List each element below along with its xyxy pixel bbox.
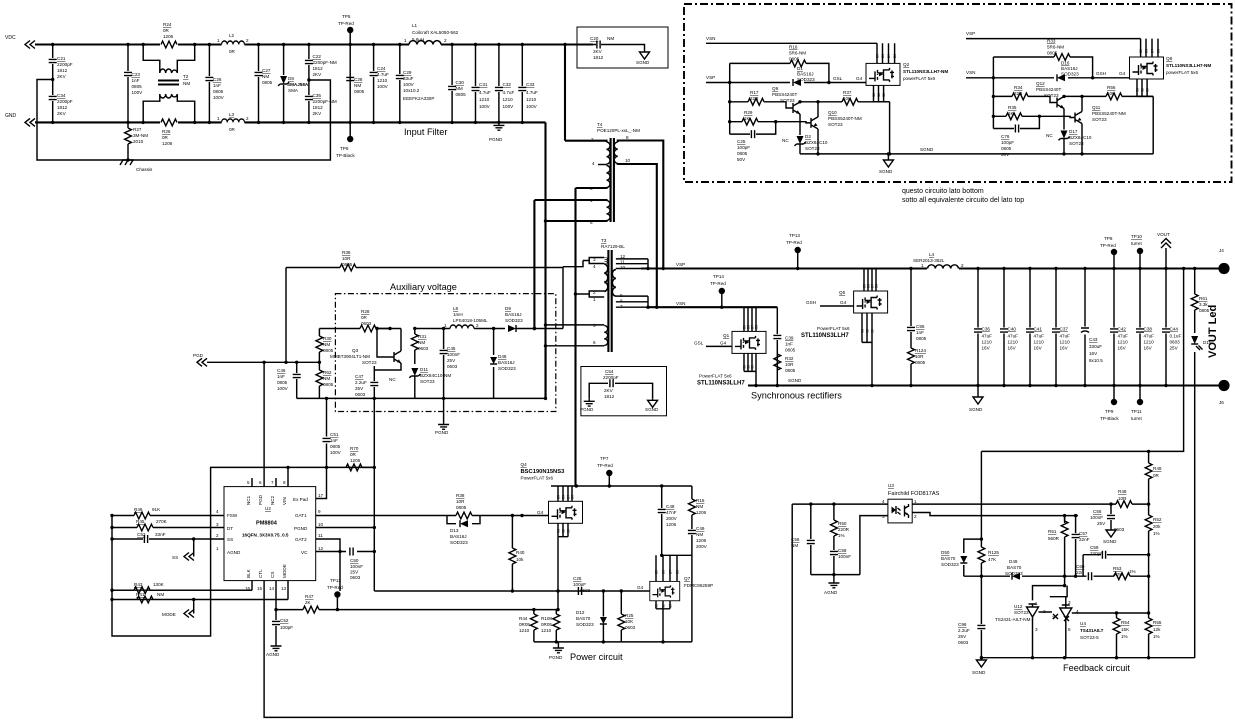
svg-text:2: 2 bbox=[246, 38, 249, 43]
svg-text:TP-Black: TP-Black bbox=[1100, 416, 1119, 421]
svg-text:25V: 25V bbox=[350, 570, 359, 575]
svg-text:NM: NM bbox=[157, 592, 164, 597]
svg-text:C46: C46 bbox=[277, 368, 286, 373]
mosfet Q2 bbox=[866, 63, 900, 85]
svg-text:SOT23: SOT23 bbox=[805, 146, 820, 151]
svg-text:NM: NM bbox=[456, 86, 463, 91]
svg-text:10R: 10R bbox=[342, 256, 351, 261]
svg-text:33nF: 33nF bbox=[155, 532, 166, 537]
svg-text:0805: 0805 bbox=[737, 151, 748, 156]
mosfet Q4 bbox=[558, 486, 572, 501]
transistor Q11 pnp bbox=[1075, 112, 1082, 124]
svg-text:1nF: 1nF bbox=[277, 374, 285, 379]
transistor Q10 pnp bbox=[811, 117, 818, 129]
svg-text:D6: D6 bbox=[562, 495, 566, 499]
wire pin13 MODE bbox=[112, 581, 288, 600]
svg-text:0R: 0R bbox=[229, 49, 236, 54]
svg-text:R54: R54 bbox=[1121, 620, 1130, 625]
svg-text:47uF: 47uF bbox=[1144, 334, 1155, 339]
svg-text:0805: 0805 bbox=[916, 336, 927, 341]
svg-text:L2: L2 bbox=[229, 33, 235, 38]
svg-text:TP7: TP7 bbox=[600, 456, 609, 461]
capacitor C40 bbox=[1003, 269, 1005, 386]
svg-text:Q3: Q3 bbox=[352, 348, 359, 353]
svg-text:D5: D5 bbox=[557, 495, 561, 499]
svg-text:VC: VC bbox=[301, 550, 308, 555]
svg-text:BAS70: BAS70 bbox=[576, 616, 591, 621]
svg-text:S1: S1 bbox=[861, 329, 865, 333]
svg-text:100pF: 100pF bbox=[280, 625, 293, 630]
svg-text:0603: 0603 bbox=[361, 321, 372, 326]
svg-text:7: 7 bbox=[271, 480, 274, 485]
resistor R40 bbox=[511, 516, 513, 592]
svg-text:200V: 200V bbox=[696, 544, 708, 549]
svg-text:VDC: VDC bbox=[5, 35, 16, 41]
svg-text:SER2013-362L: SER2013-362L bbox=[913, 258, 945, 263]
svg-text:T4: T4 bbox=[597, 122, 603, 127]
svg-text:1nF: 1nF bbox=[132, 78, 140, 83]
wire VC bbox=[316, 551, 375, 553]
wire GND to T3 area bbox=[544, 122, 546, 398]
svg-text:8x10.5: 8x10.5 bbox=[1089, 358, 1103, 363]
svg-text:560R: 560R bbox=[1048, 536, 1060, 541]
svg-text:10: 10 bbox=[625, 158, 631, 163]
svg-text:0805: 0805 bbox=[789, 57, 800, 62]
svg-text:PowerFLAT 5x6: PowerFLAT 5x6 bbox=[521, 476, 554, 481]
svg-text:1210: 1210 bbox=[1144, 340, 1155, 345]
capacitor C52 bbox=[275, 610, 277, 643]
svg-text:NC2: NC2 bbox=[270, 495, 275, 505]
diode D17 zener bbox=[1059, 131, 1070, 141]
wire GAT2 bbox=[316, 539, 340, 591]
capacitor C27 bbox=[258, 45, 260, 123]
svg-text:C26: C26 bbox=[213, 77, 222, 82]
svg-text:47K: 47K bbox=[988, 557, 997, 562]
diode D16 bbox=[1057, 74, 1065, 81]
svg-text:1nF: 1nF bbox=[916, 330, 924, 335]
svg-text:SOT23: SOT23 bbox=[780, 98, 795, 103]
svg-text:C40: C40 bbox=[1008, 327, 1017, 332]
svg-text:C54: C54 bbox=[605, 369, 614, 374]
svg-text:0R05: 0R05 bbox=[541, 622, 552, 627]
capacitor C20 bbox=[593, 45, 645, 51]
svg-text:BZX84C10: BZX84C10 bbox=[1069, 135, 1092, 140]
mosfet Q1 bbox=[744, 307, 756, 331]
svg-text:12: 12 bbox=[318, 546, 324, 551]
svg-text:25V: 25V bbox=[355, 386, 364, 391]
svg-text:NM: NM bbox=[323, 376, 330, 381]
svg-text:10: 10 bbox=[620, 265, 626, 270]
svg-text:10k: 10k bbox=[516, 557, 524, 562]
svg-text:SGND: SGND bbox=[788, 378, 802, 383]
svg-text:1%: 1% bbox=[1153, 634, 1160, 639]
wire aux vertical down bbox=[374, 590, 650, 592]
svg-text:SGND: SGND bbox=[879, 169, 893, 174]
svg-text:4.7uF: 4.7uF bbox=[479, 90, 491, 95]
svg-text:C50: C50 bbox=[350, 558, 359, 563]
svg-text:SGND: SGND bbox=[972, 670, 986, 675]
capacitor C60 / resistor R53 bbox=[1088, 572, 1091, 580]
svg-text:R49: R49 bbox=[1153, 466, 1162, 471]
svg-text:R108: R108 bbox=[541, 616, 552, 621]
diode D15 LED bbox=[1191, 336, 1198, 344]
svg-text:VSN: VSN bbox=[676, 301, 685, 306]
svg-text:8: 8 bbox=[283, 480, 286, 485]
svg-text:R40: R40 bbox=[516, 550, 525, 555]
svg-text:1: 1 bbox=[216, 546, 219, 551]
svg-text:1812: 1812 bbox=[57, 68, 68, 73]
svg-text:9: 9 bbox=[318, 509, 321, 514]
svg-text:1812: 1812 bbox=[593, 55, 604, 60]
svg-text:1: 1 bbox=[217, 38, 220, 43]
svg-text:16V: 16V bbox=[1034, 346, 1043, 351]
svg-text:C45: C45 bbox=[447, 346, 456, 351]
resistor R47 bbox=[276, 609, 534, 611]
wire U3 input bbox=[792, 503, 888, 505]
svg-text:D5: D5 bbox=[876, 54, 880, 58]
svg-text:NC: NC bbox=[389, 377, 396, 382]
svg-text:D11: D11 bbox=[420, 367, 429, 372]
svg-text:C28: C28 bbox=[354, 77, 363, 82]
svg-text:VSP: VSP bbox=[676, 262, 685, 267]
wire chassis loop left bbox=[37, 80, 330, 161]
svg-text:D8: D8 bbox=[1157, 49, 1161, 53]
wire pin16 BLK bbox=[112, 581, 252, 591]
svg-text:SMAJ58A: SMAJ58A bbox=[287, 82, 309, 87]
svg-text:D12: D12 bbox=[576, 610, 585, 615]
svg-text:1210: 1210 bbox=[479, 97, 490, 102]
svg-text:1mH: 1mH bbox=[453, 312, 463, 317]
svg-text:100V: 100V bbox=[503, 104, 515, 109]
svg-text:0.1uF: 0.1uF bbox=[1170, 334, 1182, 339]
svg-text:S1: S1 bbox=[872, 93, 876, 97]
svg-text:TP10: TP10 bbox=[1131, 234, 1142, 239]
svg-text:100pF: 100pF bbox=[737, 145, 750, 150]
svg-text:BAS70: BAS70 bbox=[1007, 565, 1022, 570]
svg-text:1210: 1210 bbox=[1118, 340, 1129, 345]
svg-text:47uF: 47uF bbox=[1008, 334, 1019, 339]
svg-text:Feedback circuit: Feedback circuit bbox=[1063, 663, 1130, 673]
svg-text:0603: 0603 bbox=[958, 640, 969, 645]
svg-text:BAS16J: BAS16J bbox=[1061, 66, 1078, 71]
resistor R30 bbox=[318, 329, 320, 399]
ground AGND bbox=[271, 643, 282, 651]
svg-text:16V: 16V bbox=[1008, 346, 1017, 351]
svg-text:GSL: GSL bbox=[694, 341, 704, 346]
svg-text:SOT23: SOT23 bbox=[1092, 117, 1107, 122]
resistor R50 bbox=[833, 504, 835, 574]
svg-text:C56: C56 bbox=[791, 537, 800, 542]
svg-text:NM: NM bbox=[696, 532, 703, 537]
svg-text:1210: 1210 bbox=[503, 97, 514, 102]
svg-text:SOT23: SOT23 bbox=[1044, 93, 1059, 98]
svg-text:PGND: PGND bbox=[489, 137, 503, 142]
svg-text:NM: NM bbox=[418, 340, 425, 345]
svg-text:NM: NM bbox=[607, 36, 614, 41]
svg-text:100V: 100V bbox=[479, 104, 491, 109]
svg-text:C55: C55 bbox=[1093, 509, 1102, 514]
capacitor C39 bbox=[776, 307, 778, 385]
svg-text:TP-Red: TP-Red bbox=[786, 240, 802, 245]
svg-text:BAS16J: BAS16J bbox=[498, 360, 515, 365]
diode D11 zener bbox=[409, 368, 420, 378]
svg-text:D6: D6 bbox=[662, 570, 666, 574]
svg-text:STL110NS3LLH7-NM: STL110NS3LLH7-NM bbox=[1166, 63, 1211, 68]
svg-text:S1: S1 bbox=[1136, 88, 1140, 92]
svg-text:CTL: CTL bbox=[258, 569, 263, 578]
svg-text:BAS16J: BAS16J bbox=[505, 312, 522, 317]
svg-text:PBSS5240T-NM: PBSS5240T-NM bbox=[828, 116, 862, 121]
svg-text:Synchronous rectifiers: Synchronous rectifiers bbox=[751, 391, 842, 401]
wire SGND bbox=[800, 153, 1153, 155]
svg-text:1nF: 1nF bbox=[330, 438, 338, 443]
svg-text:TP-Red: TP-Red bbox=[327, 585, 343, 590]
svg-text:G4: G4 bbox=[637, 585, 644, 590]
svg-text:SOD323: SOD323 bbox=[1061, 72, 1079, 77]
svg-text:4: 4 bbox=[593, 264, 596, 269]
svg-text:2KV: 2KV bbox=[57, 111, 67, 116]
svg-text:BAS16J: BAS16J bbox=[450, 534, 467, 539]
svg-text:25V: 25V bbox=[958, 634, 967, 639]
mosfet Q8 bbox=[1130, 57, 1164, 79]
ground PGND bbox=[557, 642, 559, 645]
svg-text:SOT23: SOT23 bbox=[362, 360, 377, 365]
svg-text:4.7uF: 4.7uF bbox=[503, 90, 515, 95]
svg-text:BZX84C10: BZX84C10 bbox=[805, 140, 828, 145]
svg-text:1%: 1% bbox=[1153, 531, 1160, 536]
svg-text:NM: NM bbox=[696, 504, 703, 509]
svg-text:0805: 0805 bbox=[132, 84, 143, 89]
svg-text:FDMC86259P: FDMC86259P bbox=[684, 583, 713, 588]
svg-text:100nF: 100nF bbox=[447, 352, 460, 357]
ground PGND bbox=[493, 122, 504, 130]
svg-text:R61: R61 bbox=[1199, 296, 1208, 301]
svg-text:15: 15 bbox=[257, 586, 263, 591]
svg-text:C59: C59 bbox=[1090, 545, 1099, 550]
svg-text:100pF: 100pF bbox=[1001, 140, 1014, 145]
svg-text:D8: D8 bbox=[875, 284, 879, 288]
svg-text:C96: C96 bbox=[958, 622, 967, 627]
resistor R125 bbox=[978, 547, 985, 563]
svg-text:C31: C31 bbox=[479, 82, 488, 87]
ground SGND bbox=[640, 50, 650, 59]
svg-text:SGND: SGND bbox=[1103, 539, 1117, 544]
svg-text:R41: R41 bbox=[136, 592, 145, 597]
wire top rail to T4 pin2 bbox=[564, 45, 566, 141]
svg-text:PBSS4240T: PBSS4240T bbox=[1036, 87, 1061, 92]
svg-text:25V: 25V bbox=[447, 358, 456, 363]
svg-text:R48: R48 bbox=[1118, 489, 1127, 494]
diode D1 bbox=[793, 79, 801, 86]
svg-text:C29: C29 bbox=[403, 70, 412, 75]
svg-text:T2: T2 bbox=[183, 74, 189, 79]
svg-text:S2: S2 bbox=[877, 93, 881, 97]
right subcircuit bbox=[966, 31, 1211, 157]
svg-text:R125: R125 bbox=[988, 550, 999, 555]
svg-text:PGND: PGND bbox=[294, 526, 308, 531]
svg-text:2KV: 2KV bbox=[313, 111, 323, 116]
svg-text:GND: GND bbox=[5, 113, 17, 119]
svg-text:SOD323: SOD323 bbox=[797, 77, 815, 82]
svg-text:VIN: VIN bbox=[282, 497, 287, 505]
wire GAT1 bbox=[316, 515, 447, 517]
capacitor C57 bbox=[1075, 516, 1077, 577]
ground SGND bbox=[648, 398, 658, 407]
svg-text:SOT23-5: SOT23-5 bbox=[1080, 635, 1099, 640]
opto U3 bbox=[888, 499, 912, 523]
svg-text:2KV: 2KV bbox=[604, 388, 614, 393]
svg-text:C42: C42 bbox=[1118, 327, 1127, 332]
svg-text:C22: C22 bbox=[313, 54, 322, 59]
svg-text:1: 1 bbox=[444, 323, 447, 328]
svg-text:200V: 200V bbox=[666, 516, 678, 521]
box C54 bbox=[581, 367, 667, 416]
svg-text:5R6-NM: 5R6-NM bbox=[1047, 45, 1064, 50]
svg-text:1210: 1210 bbox=[519, 628, 530, 633]
svg-text:1: 1 bbox=[921, 263, 924, 268]
resistor R124 bbox=[908, 348, 915, 364]
svg-text:U4: U4 bbox=[1080, 621, 1086, 626]
bottom wire bbox=[534, 641, 692, 643]
svg-text:U3: U3 bbox=[888, 483, 894, 488]
svg-text:4.7K: 4.7K bbox=[1113, 572, 1123, 577]
Q2 source pins bbox=[874, 85, 890, 153]
svg-text:C36: C36 bbox=[982, 327, 991, 332]
svg-text:C43: C43 bbox=[1089, 337, 1098, 342]
svg-text:1nF: 1nF bbox=[785, 342, 793, 347]
svg-text:VOUT Led: VOUT Led bbox=[1207, 305, 1219, 358]
svg-text:powerFLAT 5x6: powerFLAT 5x6 bbox=[1166, 70, 1198, 75]
wire R54 R55 bbox=[1117, 612, 1149, 614]
svg-text:R36: R36 bbox=[342, 250, 351, 255]
svg-text:0805: 0805 bbox=[1047, 51, 1058, 56]
svg-text:VSN: VSN bbox=[706, 36, 715, 41]
svg-text:Ex Pad: Ex Pad bbox=[293, 497, 308, 502]
capacitor C96 bbox=[977, 625, 985, 628]
capacitor C76 bbox=[993, 116, 1039, 128]
resistor R34 bbox=[993, 96, 1057, 102]
svg-text:1: 1 bbox=[404, 38, 407, 43]
resistor R55 bbox=[1148, 576, 1150, 658]
svg-text:C23: C23 bbox=[132, 72, 141, 77]
svg-text:100nF: 100nF bbox=[838, 554, 851, 559]
transistor Q12 bbox=[1057, 97, 1064, 109]
svg-text:TP6: TP6 bbox=[340, 146, 349, 151]
svg-text:16QFN_3X3X0.75_0.5: 16QFN_3X3X0.75_0.5 bbox=[242, 533, 289, 538]
svg-text:R27: R27 bbox=[133, 127, 142, 132]
svg-text:C57: C57 bbox=[1079, 531, 1088, 536]
capacitor C36 bbox=[977, 269, 979, 386]
svg-text:SOD323: SOD323 bbox=[576, 622, 594, 627]
svg-text:3: 3 bbox=[1068, 600, 1071, 605]
svg-text:0805: 0805 bbox=[213, 89, 224, 94]
svg-text:1812: 1812 bbox=[604, 394, 615, 399]
svg-text:2KV: 2KV bbox=[57, 74, 67, 79]
ground chassis bbox=[120, 160, 134, 165]
svg-text:22R: 22R bbox=[750, 96, 759, 101]
svg-text:G4: G4 bbox=[856, 76, 863, 81]
wire pin1 to R48 bbox=[912, 503, 1148, 505]
svg-text:SOT23: SOT23 bbox=[828, 122, 843, 127]
svg-text:13: 13 bbox=[281, 586, 287, 591]
svg-text:2200pF-NM: 2200pF-NM bbox=[313, 99, 337, 104]
ground SGND below C36 bbox=[977, 386, 979, 396]
svg-text:0R: 0R bbox=[350, 452, 357, 457]
resistor R62 bbox=[316, 370, 323, 386]
capacitor C31 bbox=[475, 45, 477, 123]
svg-text:Q11: Q11 bbox=[1092, 105, 1101, 110]
svg-text:D8: D8 bbox=[893, 54, 897, 58]
resistor R36 wire bbox=[286, 266, 563, 269]
svg-text:1812: 1812 bbox=[313, 66, 324, 71]
svg-text:Coilcraft XAL5050-562: Coilcraft XAL5050-562 bbox=[412, 30, 459, 35]
resistor R17 bbox=[730, 102, 793, 108]
svg-text:R45: R45 bbox=[136, 519, 145, 524]
svg-text:2: 2 bbox=[476, 323, 479, 328]
capacitor C35 bbox=[305, 96, 313, 99]
svg-text:SOD323: SOD323 bbox=[505, 318, 523, 323]
svg-text:SGND: SGND bbox=[920, 147, 934, 152]
svg-text:0603: 0603 bbox=[625, 625, 636, 630]
resistor R48 bbox=[1116, 501, 1132, 508]
svg-text:D2: D2 bbox=[805, 134, 811, 139]
svg-text:L1: L1 bbox=[412, 23, 418, 28]
svg-text:D49: D49 bbox=[1009, 559, 1018, 564]
svg-text:D17: D17 bbox=[1069, 129, 1078, 134]
svg-text:0805: 0805 bbox=[323, 382, 334, 387]
left bus bbox=[112, 467, 374, 636]
svg-text:1%: 1% bbox=[838, 533, 845, 538]
svg-text:D1: D1 bbox=[797, 66, 803, 71]
resistor R44 bbox=[533, 610, 535, 642]
svg-text:C51: C51 bbox=[330, 432, 339, 437]
svg-text:R25: R25 bbox=[625, 613, 634, 618]
svg-text:TP11: TP11 bbox=[1131, 409, 1142, 414]
svg-text:NM: NM bbox=[262, 74, 269, 79]
capacitor C26 bbox=[208, 45, 210, 123]
ground SGND bbox=[1106, 528, 1116, 537]
svg-text:1K: 1K bbox=[1008, 111, 1015, 116]
capacitor C29 bbox=[399, 45, 401, 123]
svg-text:PBSS5240T-NM: PBSS5240T-NM bbox=[1092, 111, 1126, 116]
svg-text:47uF: 47uF bbox=[1060, 334, 1071, 339]
svg-text:sotto all equivalente circuito: sotto all equivalente circuito del lato … bbox=[902, 197, 1024, 204]
svg-text:L4: L4 bbox=[929, 252, 935, 257]
svg-text:0R: 0R bbox=[361, 315, 368, 320]
svg-text:D13: D13 bbox=[450, 528, 459, 533]
svg-text:GAT2: GAT2 bbox=[295, 537, 307, 542]
svg-text:10x10.2: 10x10.2 bbox=[403, 88, 420, 93]
svg-text:270K: 270K bbox=[156, 519, 168, 524]
test point TP11 bbox=[1137, 399, 1143, 405]
svg-text:4.7uF: 4.7uF bbox=[526, 90, 538, 95]
svg-text:5R6-NM: 5R6-NM bbox=[789, 51, 806, 56]
svg-text:22nF: 22nF bbox=[1079, 537, 1090, 542]
svg-text:2.2uF: 2.2uF bbox=[958, 628, 970, 633]
svg-text:1206: 1206 bbox=[163, 34, 174, 39]
svg-text:100V: 100V bbox=[213, 95, 225, 100]
svg-text:130K: 130K bbox=[153, 582, 165, 587]
svg-text:S3: S3 bbox=[871, 329, 875, 333]
wire VSN drains bbox=[877, 43, 895, 63]
capacitor C34 bbox=[49, 96, 57, 99]
svg-text:EEEFK2A330P: EEEFK2A330P bbox=[403, 96, 434, 101]
svg-text:G4: G4 bbox=[840, 300, 847, 305]
wire GND rail bbox=[35, 121, 546, 123]
svg-text:C32: C32 bbox=[503, 82, 512, 87]
svg-text:SOD323: SOD323 bbox=[941, 562, 959, 567]
svg-text:R62: R62 bbox=[323, 370, 332, 375]
